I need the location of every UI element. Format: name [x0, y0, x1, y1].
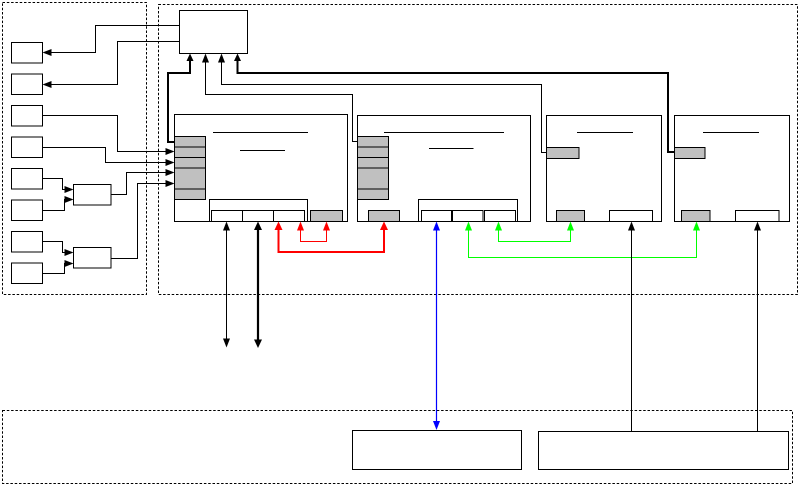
- node L1: [12, 43, 43, 64]
- block U2 port stack cell 1: [358, 137, 389, 148]
- wire WA4: U4 left port to U0 (bold): [234, 54, 675, 153]
- block U2 bottom tray: [419, 200, 518, 222]
- block U1 port stack cell 1: [175, 137, 206, 148]
- wire G1: green loop U2 tray cell2 to U4 gray port: [465, 222, 700, 258]
- wire W5: L5 to A: [43, 179, 74, 194]
- block U2 port stack cell 4: [358, 168, 389, 189]
- block U4 left gray port: [675, 148, 706, 159]
- block U2 tray cell 3: [485, 211, 516, 222]
- block U2 bottom gray port: [369, 211, 400, 222]
- wire W8: L8 to B: [43, 260, 74, 274]
- node L7: [12, 232, 43, 253]
- block U1 bottom gray port: [311, 211, 343, 222]
- node U0 (top controller box): [180, 11, 248, 54]
- wire W9: A to U1 port 4: [111, 169, 175, 195]
- dashed container: bottom bus group: [3, 411, 793, 484]
- wire WA3: U3 left port to U0: [218, 54, 547, 153]
- node L2: [12, 74, 43, 95]
- block U1 title line: [213, 132, 308, 134]
- wire W7: L7 to B: [43, 242, 74, 257]
- wire G2: green loop U2 tray cell3 to U3 gray port: [495, 222, 574, 242]
- block U2 sub line: [429, 148, 474, 150]
- block U1 sub line: [240, 150, 285, 152]
- wire WA1: U1 port 1 to U0 (bold): [168, 54, 194, 143]
- node L5: [12, 169, 43, 190]
- block U2 port stack cell 2: [358, 147, 389, 158]
- wire W1: U0 to L1: [43, 26, 180, 57]
- wire R2: red loop U1 tray cell3 to U1 gray port: [297, 222, 330, 242]
- wire BL: blue double arrow U2 tray cell1 to B1: [433, 222, 440, 431]
- block U2 port stack cell 3: [358, 158, 389, 169]
- block U3 bottom gray port: [557, 211, 585, 222]
- node L6: [12, 200, 43, 221]
- block U1 port stack cell 4: [175, 168, 206, 189]
- wire K1: B2 to U3 bottom white port: [628, 222, 635, 432]
- node L4: [12, 137, 43, 158]
- block U1 bottom tray: [210, 200, 308, 222]
- node B (merge box lower): [74, 248, 112, 269]
- wire W2: U0 to L2: [43, 42, 180, 89]
- block U1 outline: [175, 115, 348, 222]
- block U2 tray cell 2: [453, 211, 484, 222]
- wire D2: U1 tray cell2 double arrow down (bold): [254, 222, 262, 349]
- node A (merge box upper): [74, 185, 112, 206]
- block U1 tray cell 3: [274, 211, 305, 222]
- block U4 outline: [675, 116, 790, 222]
- block U1 port stack cell 2: [175, 147, 206, 158]
- node B2 (bottom box right): [539, 432, 789, 470]
- block U1 port stack cell 5: [175, 189, 206, 200]
- dashed container: main processing group: [159, 5, 798, 295]
- node L8: [12, 263, 43, 284]
- block U1 tray cell 2: [243, 211, 274, 222]
- block U4 bottom gray port: [682, 211, 711, 222]
- block U2 title line: [384, 132, 504, 134]
- block U3 bottom white port: [610, 211, 653, 222]
- wire W4: L4 to U1 port 3: [43, 148, 175, 167]
- block U1 port stack cell 3: [175, 158, 206, 169]
- dashed container: left peripheral group: [3, 3, 147, 295]
- wire WA2: U2 port 1 to U0: [202, 54, 358, 142]
- node L3: [12, 106, 43, 127]
- block U3 title line: [577, 132, 633, 134]
- block U1 tray cell 1: [212, 211, 243, 222]
- node B1 (bottom box left): [353, 431, 522, 470]
- block U3 left gray port: [547, 148, 580, 159]
- block U3 outline: [547, 116, 662, 222]
- block U4 title line: [703, 132, 759, 134]
- wire W10: B to U1 port 5: [111, 180, 175, 259]
- wire W3: L3 to U1 port 2: [43, 116, 175, 156]
- wire K2: B2 to U4 bottom white port: [754, 222, 761, 432]
- block U2 port stack cell 5: [358, 189, 389, 200]
- block U2 outline: [358, 116, 531, 222]
- block U2 tray cell 1: [422, 211, 452, 222]
- block U4 bottom white port: [736, 211, 780, 222]
- wire D1: U1 tray cell1 double arrow down (thin): [223, 222, 230, 348]
- wire W6: L6 to A: [43, 196, 74, 211]
- wire R1: red loop U1 tray cell3 to U2 gray port (bold): [275, 222, 389, 253]
